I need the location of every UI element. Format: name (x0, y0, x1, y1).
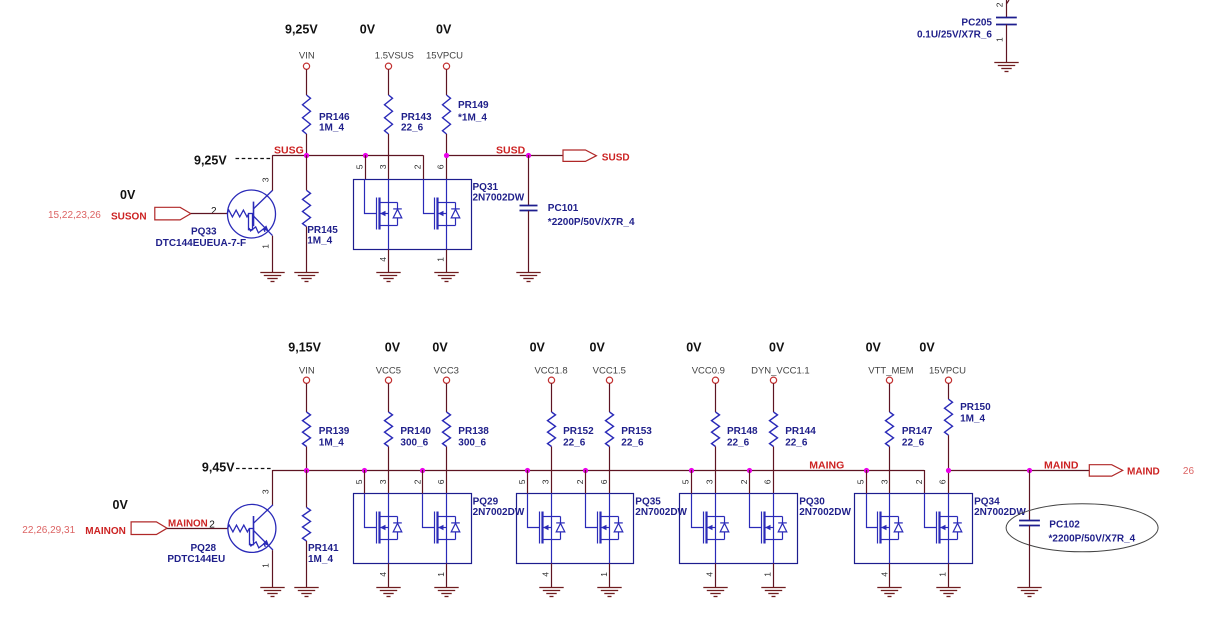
svg-text:22_6: 22_6 (621, 437, 644, 448)
resistor PR153 (606, 412, 614, 447)
ground at PQ35 pin 1 (597, 588, 621, 597)
svg-text:22_6: 22_6 (727, 437, 750, 448)
node MAING junction at PQ35 pin 5 (525, 468, 530, 473)
power terminal VCC1.5 (606, 377, 612, 383)
ground at PC102 (1017, 588, 1041, 597)
svg-text:1.5VSUS: 1.5VSUS (375, 51, 414, 62)
svg-text:*2200P/50V/X7R_4: *2200P/50V/X7R_4 (548, 217, 635, 228)
wire SUSD net (446, 155, 563, 157)
wire PQ35 pin 5 drop (527, 470, 529, 494)
node SUSD junction at PQ31 pin 6 (444, 153, 449, 158)
label PR153 22_6 (621, 426, 652, 448)
svg-text:VCC0.9: VCC0.9 (692, 365, 725, 376)
svg-text:300_6: 300_6 (400, 437, 428, 448)
capacitor PC101 (520, 206, 538, 211)
resistor PR138 (443, 412, 451, 447)
wire PQ28 collector (272, 470, 274, 505)
wire PQ31 pin 2 drop (423, 155, 425, 179)
power terminal VIN (303, 377, 309, 383)
wire PQ31 pin 5 drop (365, 155, 367, 179)
ground at PQ35 pin 4 (539, 588, 563, 597)
dual mosfet PQ35 (517, 494, 634, 564)
svg-text:6: 6 (599, 479, 609, 484)
svg-text:PR145: PR145 (307, 225, 338, 236)
svg-text:1: 1 (995, 37, 1005, 42)
wire PR146 to SUSG bus (306, 134, 308, 155)
wire PC102 top (1029, 470, 1031, 520)
power terminal VCC5 (385, 377, 391, 383)
wire PQ35 pin 2 drop (585, 470, 587, 494)
wire PQ34 pin 5 drop (866, 470, 868, 494)
svg-text:PR153: PR153 (621, 426, 652, 437)
wire DYN_VCC1.1 to PR144 (773, 383, 775, 412)
svg-text:PR149: PR149 (458, 100, 489, 111)
svg-text:5: 5 (354, 479, 364, 484)
wire PR148 down (715, 447, 717, 494)
svg-text:MAING: MAING (809, 460, 844, 472)
svg-text:VCC5: VCC5 (376, 365, 401, 376)
svg-text:2: 2 (995, 2, 1005, 7)
label PR144 22_6 (785, 426, 816, 448)
svg-text:PC102: PC102 (1049, 520, 1080, 531)
svg-text:VCC1.8: VCC1.8 (534, 365, 567, 376)
node MAING junction at PQ35 pin 2 (583, 468, 588, 473)
input port SUSON (155, 207, 191, 220)
ground at PC205 (994, 63, 1018, 72)
wire VIN to PR139 (306, 383, 308, 412)
resistor PR139 (303, 412, 311, 447)
node MAING junction at PQ30 pin 2 (747, 468, 752, 473)
svg-text:PDTC144EU: PDTC144EU (167, 554, 225, 565)
svg-text:0V: 0V (590, 340, 606, 354)
dual mosfet PQ30 (680, 494, 798, 564)
wire PQ30 pin 2 drop (749, 470, 751, 494)
power terminal VCC1.8 (548, 377, 554, 383)
wire SUSG to PR145 (306, 155, 308, 190)
svg-text:PR140: PR140 (400, 426, 431, 437)
svg-text:2: 2 (412, 479, 422, 484)
dashed lead to SUSG (236, 158, 273, 160)
svg-text:4: 4 (378, 257, 388, 262)
label PR145 1M_4 (307, 225, 338, 246)
svg-text:2: 2 (914, 479, 924, 484)
svg-text:9,25V: 9,25V (285, 23, 318, 37)
svg-text:6: 6 (763, 479, 773, 484)
wire PC102 bottom (1029, 525, 1031, 587)
power terminal VCC3 (443, 377, 449, 383)
power terminal DYN_VCC1.1 (770, 377, 776, 383)
svg-text:0.1U/25V/X7R_6: 0.1U/25V/X7R_6 (917, 30, 992, 41)
wire PR139 down (306, 447, 308, 471)
svg-text:1M_4: 1M_4 (307, 235, 332, 246)
svg-text:VIN: VIN (299, 51, 315, 62)
wire MAIND net (948, 470, 1089, 472)
svg-text:22_6: 22_6 (401, 122, 424, 133)
svg-text:*2200P/50V/X7R_4: *2200P/50V/X7R_4 (1049, 534, 1136, 545)
svg-text:22,26,29,31: 22,26,29,31 (22, 525, 75, 536)
dual mosfet PQ34 (855, 494, 973, 564)
label PR152 22_6 (563, 426, 594, 448)
ground at PQ34 pin 1 (936, 588, 960, 597)
svg-text:3: 3 (705, 479, 715, 484)
svg-text:VCC1.5: VCC1.5 (593, 365, 626, 376)
label PC101 *2200P/50V/X7R_4 (548, 203, 635, 228)
wire 1.5VSUS to PR143 (388, 69, 390, 95)
resistor PR144 (770, 412, 778, 447)
label PR139 1M_4 (319, 426, 350, 448)
svg-text:22_6: 22_6 (785, 437, 808, 448)
wire PQ28 emitter (272, 550, 274, 587)
svg-text:15VPCU: 15VPCU (929, 365, 966, 376)
wire PR140 down (388, 447, 390, 494)
wire PQ34 pin 4 to ground (889, 563, 891, 587)
svg-text:0V: 0V (385, 340, 401, 354)
svg-text:5: 5 (856, 479, 866, 484)
wire PQ31 pin 1 to ground (446, 249, 448, 272)
svg-text:1: 1 (938, 572, 948, 577)
svg-text:VTT_MEM: VTT_MEM (868, 365, 913, 376)
svg-text:2N7002DW: 2N7002DW (974, 507, 1026, 518)
ground at PQ33 emitter (260, 273, 284, 282)
svg-text:3: 3 (261, 177, 271, 182)
svg-text:2: 2 (575, 479, 585, 484)
svg-text:PQ33: PQ33 (191, 227, 217, 238)
wire VCC1.5 to PR153 (609, 383, 611, 412)
wire PQ29 pin 1 to ground (446, 563, 448, 587)
svg-text:6: 6 (938, 479, 948, 484)
wire PQ34 pin 1 to ground (948, 563, 950, 587)
wire PR141 to ground (306, 541, 308, 587)
label PR141 1M_4 (308, 543, 339, 565)
node MAIND junction at PQ34 pin 6 (946, 468, 951, 473)
svg-text:PQ34: PQ34 (974, 497, 1000, 508)
wire 15VPCU to PR149 (446, 69, 448, 95)
svg-text:PR141: PR141 (308, 543, 339, 554)
svg-text:26: 26 (1183, 466, 1195, 477)
svg-text:1: 1 (261, 563, 271, 568)
ground at PQ28 emitter (260, 588, 284, 597)
resistor PR149 (443, 95, 451, 134)
svg-text:MAINON: MAINON (85, 526, 126, 537)
svg-text:PC205: PC205 (961, 18, 992, 29)
node MAING junction at PQ29 pin 5 (362, 468, 367, 473)
svg-text:5: 5 (355, 164, 365, 169)
svg-text:VIN: VIN (299, 365, 315, 376)
ground at PR141 (294, 588, 318, 597)
ground at PQ29 pin 4 (376, 588, 400, 597)
svg-text:0V: 0V (120, 188, 136, 202)
svg-text:SUSG: SUSG (274, 145, 304, 157)
label PR138 300_6 (458, 426, 489, 448)
svg-text:0V: 0V (113, 498, 129, 512)
svg-text:3: 3 (378, 164, 388, 169)
wire PC101 top (528, 155, 530, 205)
ground at PQ30 pin 1 (761, 588, 785, 597)
svg-text:2: 2 (211, 206, 217, 217)
resistor PR150 (945, 399, 953, 435)
wire PR147 down (889, 447, 891, 494)
svg-text:0V: 0V (919, 340, 935, 354)
svg-text:VCC3: VCC3 (434, 365, 459, 376)
wire PR145 to ground (306, 227, 308, 273)
svg-text:4: 4 (541, 572, 551, 577)
wire PR138 down (446, 447, 448, 494)
svg-text:9,45V: 9,45V (202, 461, 235, 475)
label PQ29 2N7002DW (473, 497, 525, 519)
wire VCC5 to PR140 (388, 383, 390, 412)
ground at PR145 (294, 273, 318, 282)
wire VIN to PR146 (306, 69, 308, 95)
power terminal VTT_MEM (886, 377, 892, 383)
svg-text:22_6: 22_6 (563, 437, 586, 448)
svg-text:1M_4: 1M_4 (960, 414, 985, 425)
svg-text:1: 1 (436, 572, 446, 577)
svg-text:PR148: PR148 (727, 426, 758, 437)
svg-text:MAIND: MAIND (1127, 466, 1160, 477)
node MAIND junction at PC102 (1027, 468, 1032, 473)
resistor PR152 (548, 412, 556, 447)
svg-text:15,22,23,26: 15,22,23,26 (48, 210, 101, 221)
dashed lead to MAING (236, 468, 273, 470)
svg-text:0V: 0V (360, 23, 376, 37)
svg-text:PQ28: PQ28 (191, 543, 217, 554)
svg-text:2: 2 (739, 479, 749, 484)
svg-text:3: 3 (261, 489, 271, 494)
wire PQ31 pin 4 to ground (388, 249, 390, 272)
output port MAIND (1089, 465, 1122, 476)
svg-text:PR139: PR139 (319, 426, 350, 437)
node SUSG junction at PQ31 pin 5 (363, 153, 368, 158)
resistor PR147 (886, 412, 894, 447)
wire PQ33 collector (272, 155, 274, 191)
svg-text:9,15V: 9,15V (288, 340, 321, 354)
wire PR152 down (551, 447, 553, 494)
label PQ33 DTC144EUEUA-7-F (156, 227, 247, 250)
node MAING junction at PQ34 pin 5 (864, 468, 869, 473)
svg-text:PR147: PR147 (902, 426, 933, 437)
wire PQ34 pin 2 drop (924, 470, 926, 494)
wire VCC0.9 to PR148 (715, 383, 717, 412)
ground at PC101 (516, 273, 540, 282)
wire PR149 to SUSD node (446, 134, 448, 180)
ground at PQ31 pin 4 (376, 273, 400, 282)
node MAING junction at PR139 (304, 468, 309, 473)
svg-text:4: 4 (705, 572, 715, 577)
wire SUSON to PQ33 base (191, 213, 228, 215)
input port MAINON (131, 522, 167, 535)
svg-text:1M_4: 1M_4 (319, 437, 344, 448)
resistor PR148 (712, 412, 720, 447)
highlight ellipse around PC102 (1006, 504, 1158, 552)
ground at PQ31 pin 1 (434, 273, 458, 282)
svg-text:1: 1 (599, 572, 609, 577)
wire PQ29 pin 4 to ground (388, 563, 390, 587)
svg-text:6: 6 (436, 479, 446, 484)
label PQ31 2N7002DW (473, 182, 525, 204)
svg-text:3: 3 (378, 479, 388, 484)
wire PQ29 pin 2 drop (422, 470, 424, 494)
svg-text:PR138: PR138 (458, 426, 489, 437)
wire PR150 down (948, 435, 950, 493)
label PQ34 2N7002DW (974, 497, 1026, 519)
svg-text:PQ30: PQ30 (799, 497, 825, 508)
label PR150 1M_4 (960, 402, 991, 425)
transistor PQ33 (227, 190, 276, 238)
resistor PR146 (303, 95, 311, 134)
svg-text:0V: 0V (432, 340, 448, 354)
wire PQ30 pin 1 to ground (773, 563, 775, 587)
ground at PQ29 pin 1 (434, 588, 458, 597)
svg-text:DYN_VCC1.1: DYN_VCC1.1 (751, 365, 810, 376)
resistor PR141 (303, 507, 311, 541)
svg-text:SUSD: SUSD (602, 153, 630, 164)
wire VCC1.8 to PR152 (551, 383, 553, 412)
resistor PR143 (385, 95, 393, 134)
label PR146 1M_4 (319, 112, 350, 133)
svg-text:PQ31: PQ31 (473, 182, 499, 193)
svg-text:PR146: PR146 (319, 112, 350, 123)
svg-text:1M_4: 1M_4 (319, 122, 344, 133)
power terminal 1.5VSUS (0V) (385, 63, 391, 69)
wire PQ29 pin 5 drop (364, 470, 366, 494)
wire PQ33 emitter (272, 236, 274, 272)
label PC102 *2200P/50V/X7R_4 (1049, 520, 1136, 545)
svg-text:1: 1 (436, 257, 446, 262)
svg-text:PC101: PC101 (548, 203, 579, 214)
wire PQ30 pin 5 drop (691, 470, 693, 494)
power terminal 15VPCU (0V) (443, 63, 449, 69)
ground at PQ34 pin 4 (877, 588, 901, 597)
svg-text:0V: 0V (686, 340, 702, 354)
svg-text:5: 5 (681, 479, 691, 484)
label PR147 22_6 (902, 426, 933, 448)
svg-text:SUSON: SUSON (111, 212, 147, 223)
wire PR143 to PQ31 pin 3 (388, 134, 390, 180)
wire PC205 to ground (1006, 25, 1008, 63)
wire MAING bus (273, 470, 925, 472)
svg-text:0V: 0V (436, 23, 452, 37)
resistor PR145 (303, 190, 311, 226)
label PR143 22_6 (401, 112, 432, 133)
node SUSD junction at PC101 (526, 153, 531, 158)
svg-text:2N7002DW: 2N7002DW (473, 193, 525, 204)
svg-text:0V: 0V (866, 340, 882, 354)
wire PQ35 pin 1 to ground (609, 563, 611, 587)
label PQ28 PDTC144EU (167, 543, 225, 565)
svg-text:SUSD: SUSD (496, 145, 526, 157)
svg-text:PR150: PR150 (960, 402, 991, 413)
wire PC101 bottom (528, 211, 530, 272)
svg-text:PQ35: PQ35 (635, 497, 661, 508)
wire 15VPCU to PR150 (948, 383, 950, 399)
wire VCC3 to PR138 (446, 383, 448, 412)
label PC205 0.1U/25V/X7R_6 (917, 18, 992, 41)
label PR148 22_6 (727, 426, 758, 448)
power terminal 15VPCU (945, 377, 951, 383)
label PQ35 2N7002DW (635, 497, 687, 519)
node SUSG junction at PR146 (304, 153, 309, 158)
wire SUSG bus (273, 155, 424, 157)
wire PR144 down (773, 447, 775, 494)
svg-text:5: 5 (517, 479, 527, 484)
wire MAING to PR141 (306, 470, 308, 507)
svg-text:PQ29: PQ29 (473, 497, 499, 508)
capacitor PC102 (1019, 521, 1040, 526)
svg-text:22_6: 22_6 (902, 437, 925, 448)
svg-text:0V: 0V (530, 340, 546, 354)
resistor PR140 (385, 412, 393, 447)
svg-text:3: 3 (879, 479, 889, 484)
wire MAINON to PQ28 base (167, 528, 228, 530)
svg-text:3: 3 (541, 479, 551, 484)
wire PQ30 pin 4 to ground (715, 563, 717, 587)
label PQ30 2N7002DW (799, 497, 851, 519)
wire PR153 down (609, 447, 611, 494)
svg-text:PR152: PR152 (563, 426, 594, 437)
svg-text:1: 1 (261, 244, 271, 249)
svg-text:*1M_4: *1M_4 (458, 113, 487, 124)
svg-text:1: 1 (763, 572, 773, 577)
svg-text:6: 6 (436, 164, 446, 169)
svg-text:DTC144EUEUA-7-F: DTC144EUEUA-7-F (156, 238, 247, 249)
label PR140 300_6 (400, 426, 431, 448)
svg-text:PR143: PR143 (401, 112, 432, 123)
label PR149 *1M_4 (458, 100, 489, 124)
svg-text:1M_4: 1M_4 (308, 554, 333, 565)
svg-text:9,25V: 9,25V (194, 154, 227, 168)
svg-text:MAIND: MAIND (1044, 459, 1079, 471)
svg-text:300_6: 300_6 (458, 437, 486, 448)
dual mosfet PQ31 (354, 180, 472, 250)
dual mosfet PQ29 (354, 494, 472, 564)
svg-text:MAINON: MAINON (168, 519, 208, 530)
node MAING junction at PQ29 pin 2 (420, 468, 425, 473)
svg-text:4: 4 (378, 572, 388, 577)
svg-text:PR144: PR144 (785, 426, 816, 437)
wire VTT_MEM to PR147 (889, 383, 891, 412)
transistor PQ28 (227, 504, 276, 552)
node MAING junction at PQ30 pin 5 (689, 468, 694, 473)
output port SUSD (563, 150, 596, 161)
wire into PC205 from top (1006, 0, 1009, 18)
svg-text:0V: 0V (769, 340, 785, 354)
svg-text:4: 4 (879, 572, 889, 577)
power terminal VIN (9,25V) (303, 63, 309, 69)
capacitor PC205 (996, 18, 1017, 25)
svg-text:2: 2 (413, 164, 423, 169)
power terminal VCC0.9 (712, 377, 718, 383)
svg-text:2N7002DW: 2N7002DW (799, 507, 851, 518)
svg-text:15VPCU: 15VPCU (426, 51, 463, 62)
wire PQ35 pin 4 to ground (551, 563, 553, 587)
ground at PQ30 pin 4 (703, 588, 727, 597)
